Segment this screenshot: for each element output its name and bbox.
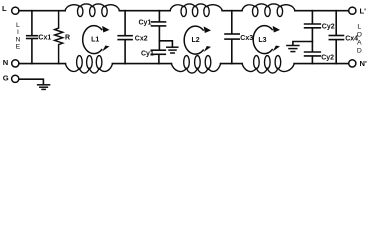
wire L3 to load bottom [294, 63, 348, 65]
inductor L3 bottom winding [242, 56, 294, 73]
inductor L2 bottom winding [171, 56, 220, 73]
svg-text:Cx2: Cx2 [135, 36, 148, 43]
inductor L3 top winding [242, 4, 295, 17]
ground Cy2 [287, 46, 299, 52]
rotation arrow L3 [253, 26, 280, 54]
wire L1 to Cx2 bottom [112, 63, 171, 65]
svg-text:L2: L2 [192, 37, 200, 44]
svg-text:Cy2: Cy2 [322, 23, 335, 30]
svg-text:Cx1: Cx1 [38, 35, 51, 42]
svg-text:Cy2: Cy2 [321, 55, 334, 62]
svg-text:A: A [357, 40, 362, 47]
ground Cy1 [167, 47, 178, 53]
svg-text:D: D [357, 48, 362, 55]
inductor L2 top winding [170, 4, 222, 17]
wire L terminal to L1 [19, 10, 65, 12]
node LOAD label [357, 24, 362, 55]
svg-text:Cy1: Cy1 [139, 20, 152, 27]
wire L1 to Cx2 top [119, 10, 170, 12]
inductor L1 top winding [65, 4, 120, 17]
wire L3 to load top [295, 10, 349, 12]
terminal L' [349, 7, 356, 14]
rotation arrow L2 [184, 26, 211, 54]
capacitor Cx1 [27, 11, 52, 64]
node LINE label [15, 22, 20, 51]
svg-text:Cy1: Cy1 [141, 50, 154, 57]
svg-text:Cx3: Cx3 [240, 35, 253, 42]
terminal L [12, 7, 19, 14]
svg-text:L3: L3 [258, 37, 266, 44]
terminal N' [349, 60, 356, 67]
resistor R [55, 11, 70, 64]
svg-text:L: L [16, 22, 20, 29]
svg-text:E: E [16, 44, 21, 51]
svg-text:L: L [357, 24, 361, 31]
svg-text:I: I [17, 29, 19, 36]
svg-text:R: R [65, 34, 70, 41]
terminal G [12, 75, 19, 82]
wire L2 to Cx3 bottom [221, 63, 243, 65]
svg-text:N': N' [360, 59, 367, 68]
inductor L1 bottom winding [65, 56, 112, 73]
svg-text:G: G [3, 74, 9, 83]
svg-text:O: O [357, 32, 362, 39]
terminal N [12, 60, 19, 67]
svg-text:N: N [15, 36, 20, 43]
rotation arrow L1 [83, 26, 110, 54]
svg-text:L1: L1 [91, 37, 99, 44]
capacitor Cx2 [118, 11, 148, 64]
svg-text:L': L' [360, 6, 367, 15]
svg-text:N: N [3, 58, 8, 67]
capacitor Cx3 [225, 11, 253, 64]
wire N terminal to L1 bottom [19, 63, 65, 65]
wire G to ground [19, 79, 43, 84]
capacitor Cy1 bottom [141, 50, 165, 63]
wire Cy2 midpoint to ground [293, 42, 313, 45]
ground G [38, 85, 50, 90]
capacitor Cy2 top [305, 11, 335, 52]
svg-text:L: L [2, 4, 7, 13]
wire L2 to Cx3 top [222, 10, 242, 12]
capacitor Cx4 [329, 11, 358, 64]
capacitor Cy1 top [139, 11, 166, 50]
wire Cy1 midpoint to ground [159, 41, 172, 47]
capacitor Cy2 bottom [305, 52, 335, 64]
